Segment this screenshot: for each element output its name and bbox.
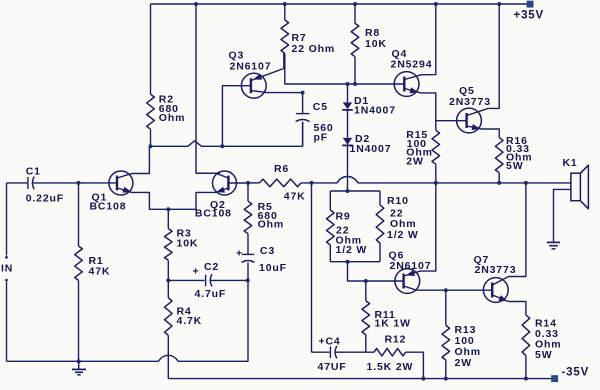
svg-text:1N4007: 1N4007 xyxy=(354,105,396,117)
svg-text:1/2 W: 1/2 W xyxy=(336,244,368,256)
svg-text:R12: R12 xyxy=(385,334,407,346)
svg-text:0.22uF: 0.22uF xyxy=(26,192,64,204)
svg-text:47K: 47K xyxy=(89,266,111,278)
svg-text:Ohm: Ohm xyxy=(258,219,284,231)
svg-text:IN: IN xyxy=(1,263,13,275)
svg-text:5W: 5W xyxy=(535,349,552,361)
svg-text:10uF: 10uF xyxy=(259,262,287,274)
svg-text:C3: C3 xyxy=(260,245,275,257)
svg-text:10K: 10K xyxy=(177,238,199,250)
svg-text:BC108: BC108 xyxy=(195,207,232,219)
svg-text:2W: 2W xyxy=(455,357,472,369)
svg-text:2N3773: 2N3773 xyxy=(475,264,517,276)
svg-text:C1: C1 xyxy=(26,166,41,178)
svg-text:+35V: +35V xyxy=(514,10,545,22)
svg-text:1.5K 2W: 1.5K 2W xyxy=(367,361,414,373)
svg-text:K1: K1 xyxy=(563,157,578,169)
svg-text:+: + xyxy=(193,266,200,278)
svg-text:1/2 W: 1/2 W xyxy=(387,229,419,241)
svg-text:2W: 2W xyxy=(406,156,423,168)
svg-text:47K: 47K xyxy=(284,191,306,203)
svg-text:C5: C5 xyxy=(313,101,328,113)
svg-text:BC108: BC108 xyxy=(90,200,127,212)
svg-text:4.7K: 4.7K xyxy=(177,315,203,327)
svg-text:-35V: -35V xyxy=(562,367,590,379)
svg-text:C2: C2 xyxy=(204,261,219,273)
svg-text:4.7uF: 4.7uF xyxy=(195,288,227,300)
svg-text:22 Ohm: 22 Ohm xyxy=(292,43,336,55)
svg-text:1K 1W: 1K 1W xyxy=(375,318,411,330)
svg-text:R10: R10 xyxy=(387,195,409,207)
svg-text:R6: R6 xyxy=(274,163,289,175)
svg-text:2N5294: 2N5294 xyxy=(391,59,433,71)
svg-text:1N4007: 1N4007 xyxy=(350,143,392,155)
svg-text:+: + xyxy=(236,248,243,260)
svg-text:+C4: +C4 xyxy=(319,336,341,348)
svg-text:2N3773: 2N3773 xyxy=(449,96,491,108)
svg-text:5W: 5W xyxy=(506,160,523,172)
svg-text:Ohm: Ohm xyxy=(159,112,185,124)
svg-text:10K: 10K xyxy=(365,38,387,50)
svg-text:47UF: 47UF xyxy=(318,361,347,373)
svg-text:pF: pF xyxy=(314,132,329,144)
svg-text:2N6107: 2N6107 xyxy=(390,260,432,272)
svg-text:R9: R9 xyxy=(336,211,351,223)
svg-text:2N6107: 2N6107 xyxy=(230,60,272,72)
